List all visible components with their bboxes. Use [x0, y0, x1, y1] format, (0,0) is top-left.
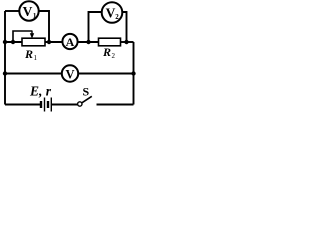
svg-text:R: R [24, 47, 33, 61]
wire: left rail [4, 11, 6, 105]
svg-text:V: V [23, 4, 33, 19]
svg-text:E, r: E, r [29, 84, 52, 99]
rheostat slider arrow [30, 31, 34, 39]
voltmeter V1 [19, 1, 38, 20]
svg-text:R: R [102, 45, 111, 59]
svg-text:2: 2 [112, 52, 116, 60]
node: junction V line left rail [3, 71, 7, 75]
wire: main line R2 to right rail [121, 41, 134, 43]
wire: main line left of R1 [5, 41, 22, 43]
wire: rheostat slider branch [13, 31, 32, 42]
voltmeter V [62, 65, 78, 81]
wire: V line left segment [5, 73, 62, 75]
svg-text:A: A [66, 35, 75, 49]
svg-text:1: 1 [33, 12, 37, 20]
wire: bottom rail left of battery [5, 104, 40, 106]
node: junction V2 left wire on main line [86, 40, 90, 44]
wire: bottom rail battery to switch [51, 104, 77, 106]
svg-text:2: 2 [115, 13, 119, 21]
wire: top V1 wire right segment [39, 11, 49, 42]
ammeter A [62, 34, 77, 49]
wire: right rail [133, 42, 135, 105]
svg-text:S: S [83, 85, 90, 99]
wire: main line ammeter to R2 [78, 41, 99, 43]
node: junction main line / left rail [3, 40, 7, 44]
node: junction V1 drop on main line [47, 40, 51, 44]
wire: main line R1 to ammeter [45, 41, 63, 43]
wire: V2 loop left vertical [89, 12, 102, 42]
svg-text:V: V [65, 68, 74, 82]
switch S [78, 96, 92, 106]
wire: top V1 wire left segment [5, 10, 20, 12]
node: junction slider branch on main line [11, 40, 15, 44]
node: junction V line right rail [131, 71, 135, 75]
battery E,r [41, 98, 51, 112]
resistor R1 (rheostat box) [22, 38, 45, 46]
wire: V line right segment [78, 73, 133, 75]
svg-text:1: 1 [34, 54, 38, 62]
svg-text:V: V [106, 6, 116, 21]
node: junction V2 right wire on main line [124, 40, 128, 44]
wire: V2 loop right vertical [122, 12, 127, 42]
voltmeter V2 [102, 2, 123, 23]
wire: bottom rail right of switch [97, 104, 134, 106]
resistor R2 [99, 38, 121, 46]
